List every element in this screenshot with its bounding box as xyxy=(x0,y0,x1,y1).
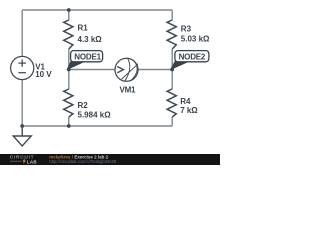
wire left upper xyxy=(21,10,23,57)
wire R2 bottom lead xyxy=(68,117,70,126)
resistor R3 xyxy=(167,20,176,49)
wire top xyxy=(22,9,172,11)
watermark bar xyxy=(0,154,220,165)
wire R4 top lead xyxy=(171,70,173,90)
watermark logo lightning xyxy=(23,158,26,164)
svg-text:http://circuitlab.com/c/7mdsgb: http://circuitlab.com/c/7mdsgb33c68 xyxy=(49,159,116,164)
wire R4 bottom lead xyxy=(171,117,173,126)
wire left lower xyxy=(21,80,23,127)
watermark logo dashes xyxy=(10,160,22,162)
wire R3 top lead xyxy=(171,10,173,20)
resistor R1 xyxy=(64,20,73,49)
junction dot ground corner xyxy=(20,124,24,128)
node NODE2 flag xyxy=(170,51,209,71)
svg-text:LAB: LAB xyxy=(27,159,38,164)
wire voltmeter to node2 xyxy=(138,69,172,71)
junction dot node A xyxy=(67,68,71,72)
wire bottom xyxy=(22,125,172,127)
wire R3 bottom lead xyxy=(171,49,173,70)
ground xyxy=(13,126,31,146)
wire R2 top lead xyxy=(68,70,70,90)
resistor R2 xyxy=(64,89,73,117)
resistor R4 xyxy=(167,89,176,117)
wire R1 bottom lead xyxy=(68,49,70,70)
junction dot node B xyxy=(170,68,174,72)
node NODE1 flag xyxy=(66,51,102,71)
voltage source V1 xyxy=(11,56,34,79)
wire node1 to voltmeter xyxy=(69,69,115,71)
wire R1 top lead xyxy=(68,10,70,20)
voltmeter VM1 xyxy=(115,58,138,81)
junction dot top R1 xyxy=(67,8,71,12)
junction dot bottom R2 xyxy=(67,124,71,128)
